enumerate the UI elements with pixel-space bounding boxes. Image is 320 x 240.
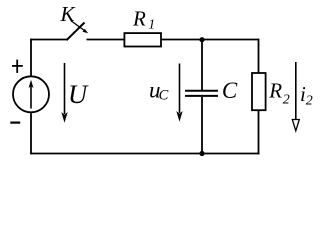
- svg-text:R: R: [132, 6, 146, 30]
- label uC: [149, 77, 169, 103]
- wire top-left horizontal (source to switch): [30, 39, 67, 41]
- plus sign: [12, 60, 23, 73]
- wire R2 to bottom-right corner: [258, 111, 260, 154]
- svg-text:C: C: [222, 78, 238, 103]
- wire capacitor top (junction to plate): [201, 40, 203, 91]
- voltage arrow uC (downward): [176, 64, 182, 122]
- resistor R2 box: [252, 73, 266, 110]
- wire left vertical (top corner to source circle): [30, 39, 32, 76]
- wire bottom horizontal: [30, 153, 259, 155]
- switch K blade: [67, 23, 85, 41]
- svg-text:R: R: [268, 79, 282, 103]
- source internal arrow (upward): [29, 80, 34, 109]
- label R1: [132, 6, 155, 32]
- wire switch to R1: [87, 39, 124, 41]
- svg-text:2: 2: [283, 92, 290, 107]
- svg-text:U: U: [68, 79, 89, 109]
- node junction dot top: [199, 37, 204, 42]
- resistor R1 box: [124, 33, 161, 46]
- wire left vertical (source circle to bottom corner): [30, 113, 32, 154]
- wire capacitor bottom (plate to junction): [201, 97, 203, 154]
- node junction dot bottom: [199, 151, 204, 156]
- label i2: [300, 82, 313, 109]
- svg-text:1: 1: [148, 18, 155, 33]
- svg-text:C: C: [159, 88, 169, 104]
- label R2: [268, 79, 290, 108]
- minus sign: [10, 121, 20, 123]
- svg-text:2: 2: [306, 94, 313, 109]
- switch K closing-motion arrow: [71, 21, 88, 34]
- voltage arrow U (downward): [61, 63, 67, 123]
- wire right vertical (corner to R2): [258, 39, 260, 74]
- current arrow i2 (downward, open head): [292, 62, 299, 131]
- wire R1 to top-right corner: [162, 39, 259, 41]
- source U circle: [13, 76, 49, 112]
- svg-text:K: K: [60, 2, 76, 26]
- capacitor C plates: [185, 91, 218, 96]
